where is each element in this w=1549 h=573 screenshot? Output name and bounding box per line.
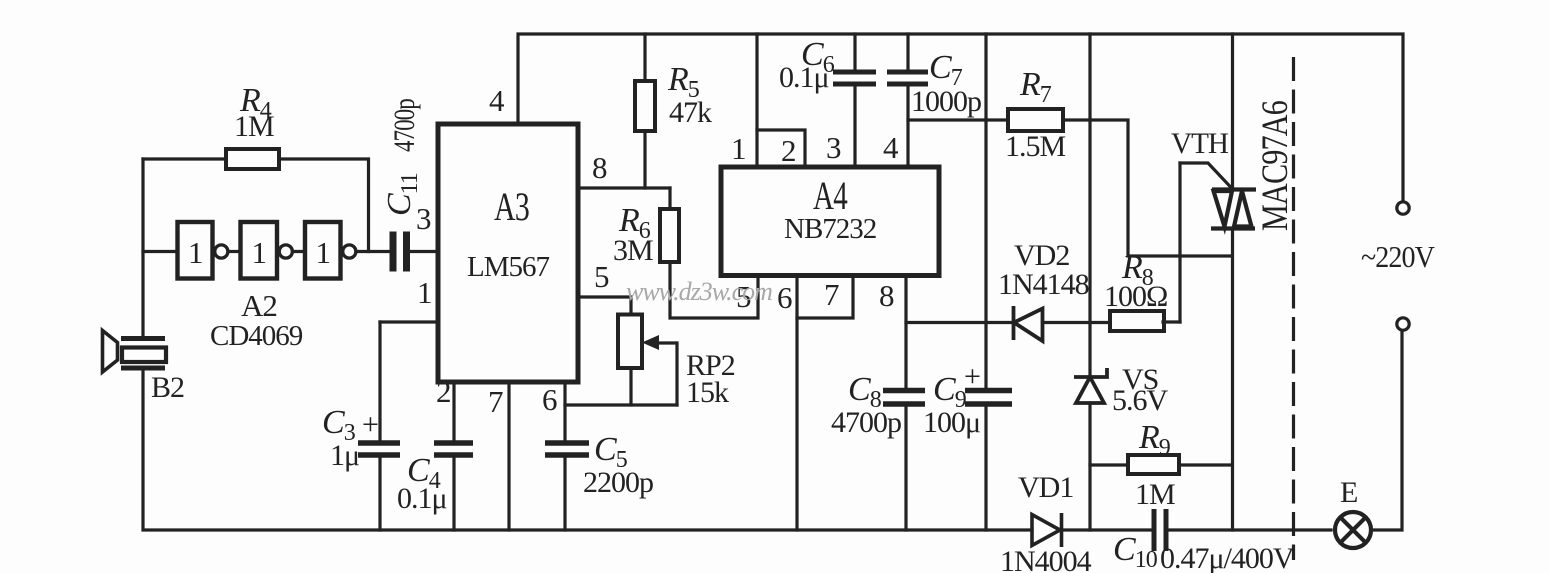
wire top supply rail with pin4 drop and right drop	[518, 34, 1403, 201]
svg-text:3: 3	[826, 130, 841, 165]
svg-text:1000p: 1000p	[911, 85, 981, 118]
capacitor C4	[434, 443, 473, 455]
wire B2 to bottom rail and bottom rail to VD1	[143, 370, 1032, 530]
inverter gate 1 box	[178, 222, 213, 279]
wire inverter1 to inverter2	[228, 250, 240, 253]
resistor R7	[1008, 109, 1063, 131]
capacitor C11	[393, 232, 407, 272]
wire R5 top lead	[643, 34, 646, 81]
wire VD2 to R8	[1043, 321, 1111, 324]
svg-text:8: 8	[592, 150, 607, 185]
svg-text:VTH: VTH	[1171, 127, 1228, 160]
svg-text:A2: A2	[241, 288, 277, 323]
diode VD2	[1014, 306, 1043, 341]
zener VS	[1074, 368, 1107, 403]
capacitor C5	[545, 443, 589, 455]
wire A4 pin1-2 supply drop	[755, 34, 758, 167]
wire inverter3 output to C11	[356, 250, 390, 253]
svg-text:2200p: 2200p	[583, 466, 653, 499]
wire R9 left lead	[1090, 463, 1128, 466]
wire A3 pin1 to C3 branch	[380, 320, 438, 323]
svg-text:E: E	[1340, 476, 1357, 509]
wire A4 pin2 stub box	[757, 130, 805, 166]
wire RP2 wiper down	[675, 343, 678, 405]
resistor R4	[226, 149, 279, 169]
svg-text:1.5M: 1.5M	[1005, 130, 1066, 163]
wire RP2 bottom lead	[629, 368, 632, 405]
svg-text:0.47μ/400V: 0.47μ/400V	[1160, 542, 1295, 573]
svg-text:5: 5	[594, 259, 609, 294]
wire A4 pin8 to C8	[904, 276, 907, 388]
capacitor C9	[965, 391, 1012, 405]
svg-text:7: 7	[824, 277, 839, 312]
svg-text:7: 7	[488, 384, 503, 419]
svg-text:6: 6	[777, 280, 792, 315]
op-amp/IC A3 LM567 box	[438, 124, 578, 382]
inverter gate 1 bubble	[215, 245, 228, 258]
wire R5 bottom lead	[643, 131, 646, 188]
resistor R5	[635, 81, 655, 131]
svg-text:5.6V: 5.6V	[1112, 384, 1169, 417]
svg-text:1: 1	[417, 275, 432, 310]
svg-text:0.1μ: 0.1μ	[779, 61, 829, 94]
wire R8 right lead	[1163, 320, 1180, 323]
wire triac main line lower	[1231, 229, 1234, 531]
wire RP2 bottom bus to pin6 line	[565, 403, 677, 406]
wire left vertical from loop to B2	[141, 159, 144, 336]
wire C7 bottom lead to A4 pin4	[906, 86, 909, 167]
wire C7 junction to R7	[908, 118, 1008, 121]
svg-text:1N4148: 1N4148	[998, 268, 1089, 301]
potentiometer RP2 wiper arrow	[659, 341, 677, 344]
capacitor C3	[358, 443, 400, 455]
wire C3 lower lead to bottom rail	[378, 458, 381, 530]
wire C6 top lead	[853, 34, 856, 70]
terminal upper	[1397, 202, 1409, 214]
resistor R8	[1110, 311, 1164, 331]
svg-text:1M: 1M	[1135, 478, 1175, 511]
wire input to first inverter	[143, 250, 177, 253]
potentiometer RP2 body	[618, 315, 642, 369]
svg-text:100μ: 100μ	[923, 406, 980, 439]
wire A3 pin7 to bottom rail	[507, 382, 510, 530]
wire inverter2 to inverter3	[293, 250, 306, 253]
wire C11 to A3 pin3	[409, 250, 438, 253]
diode VD1	[1032, 513, 1062, 547]
svg-text:1: 1	[252, 235, 267, 270]
svg-text:15k: 15k	[686, 376, 729, 409]
wire R9 right lead	[1179, 463, 1232, 466]
lamp E	[1335, 512, 1371, 548]
wire C8 to bottom rail	[904, 406, 907, 530]
wire A4 pin7 stub box	[797, 276, 853, 318]
microphone B2 horn	[103, 331, 118, 373]
svg-text:100Ω: 100Ω	[1104, 280, 1167, 313]
svg-text:+: +	[964, 360, 980, 393]
capacitor C10	[1154, 509, 1166, 551]
microphone B2 crystal	[122, 348, 166, 363]
wire C9 to bottom rail	[984, 406, 987, 530]
wire lamp to mains terminal	[1372, 331, 1402, 530]
svg-text:1: 1	[316, 235, 331, 270]
svg-text:VD1: VD1	[1018, 471, 1073, 504]
wire C9 supply line upper	[984, 34, 987, 388]
capacitor C7	[887, 72, 928, 84]
svg-text:1N4004: 1N4004	[1000, 545, 1092, 573]
triac VTH	[1211, 190, 1256, 229]
wire triac gate vertical	[1178, 163, 1181, 322]
wire C10 to lamp	[1168, 528, 1331, 531]
svg-text:A3: A3	[494, 184, 529, 229]
svg-text:4: 4	[489, 83, 505, 118]
capacitor C6	[833, 72, 876, 84]
wire triac gate lead	[1180, 163, 1232, 189]
svg-text:+: +	[362, 408, 378, 441]
svg-text:47k: 47k	[669, 96, 712, 129]
wire zener line lower	[1088, 403, 1091, 530]
svg-text:3M: 3M	[613, 234, 653, 267]
microphone B2 plates	[121, 339, 165, 369]
svg-text:LM567: LM567	[467, 251, 550, 283]
svg-text:6: 6	[542, 382, 557, 417]
wire A3 pin5 to RP2 top	[578, 297, 631, 315]
svg-text:0.1μ: 0.1μ	[397, 482, 447, 515]
svg-text:CD4069: CD4069	[210, 320, 303, 352]
wire A3 pin2 to C4	[452, 382, 455, 440]
IC A4 NB7232 box	[721, 167, 939, 276]
wire R4 feedback loop left segment	[143, 157, 226, 160]
wire VD1 to C10	[1061, 528, 1151, 531]
svg-text:B2: B2	[151, 371, 184, 404]
svg-text:4: 4	[883, 130, 899, 165]
svg-text:3: 3	[416, 201, 431, 236]
wire A3 pin8	[578, 186, 670, 189]
svg-text:NB7232: NB7232	[784, 213, 876, 245]
wire A3 pin6 to C5	[563, 382, 566, 440]
inverter gate 3 box	[305, 222, 341, 279]
wire C6 bottom lead to A4 pin3	[853, 86, 856, 167]
svg-text:8: 8	[879, 278, 894, 313]
svg-text:2: 2	[781, 133, 796, 168]
inverter gate 2 bubble	[279, 245, 292, 258]
resistor R6	[660, 209, 679, 262]
svg-text:MAC97A6: MAC97A6	[1255, 101, 1296, 231]
dashed separation line	[1292, 57, 1295, 560]
wire R6 top lead	[668, 188, 671, 209]
wire triac main line upper	[1231, 34, 1234, 190]
svg-text:~220V: ~220V	[1361, 239, 1435, 274]
inverter gate 3 bubble	[343, 245, 356, 258]
resistor R9	[1128, 455, 1179, 474]
svg-text:4700p: 4700p	[831, 406, 901, 439]
svg-text:4700p: 4700p	[388, 99, 421, 152]
capacitor C8	[883, 391, 925, 405]
svg-text:A4: A4	[813, 173, 848, 218]
wire R7 right lead and drop to gate bus	[1063, 120, 1232, 256]
svg-text:1M: 1M	[234, 110, 274, 143]
svg-text:1: 1	[188, 235, 203, 270]
inverter gate 2 box	[241, 222, 278, 279]
svg-text:2: 2	[436, 374, 451, 409]
wire C3 upper lead	[378, 322, 381, 440]
wire C5 to bottom rail	[563, 458, 566, 530]
wire zener line upper	[1088, 34, 1091, 377]
svg-text:www.dz3w.com: www.dz3w.com	[626, 277, 772, 306]
wire A4 pin8 to VD2	[906, 321, 1013, 324]
wire A4 pin6 to bottom rail	[795, 276, 798, 530]
terminal lower	[1397, 318, 1409, 330]
svg-text:1μ: 1μ	[330, 439, 359, 472]
wire R6 bottom to A4 pin5	[670, 262, 758, 318]
svg-text:1: 1	[731, 131, 746, 166]
wire C4 to bottom rail	[452, 458, 455, 530]
wire C7 top lead	[906, 34, 909, 70]
wire R4 feedback loop right segment down to inverter output	[279, 159, 369, 252]
